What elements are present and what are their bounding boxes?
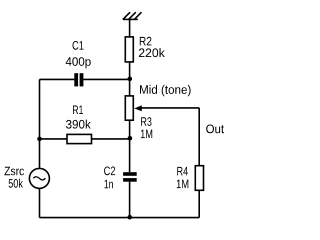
wire left rail to Zsrc top (39, 139, 41, 169)
label 220k (139, 48, 165, 57)
label 1n (105, 180, 113, 189)
resistor R2 (125, 37, 133, 62)
wiper arrowhead of R3 (134, 105, 142, 111)
label 1M of R3 (141, 130, 152, 139)
label Out (206, 125, 224, 134)
wire Zsrc bottom to bottom rail (39, 188, 41, 217)
label C1 (73, 41, 84, 50)
label Mid (tone) (140, 85, 191, 96)
chassis ground GND1 (top) (123, 12, 142, 19)
wire wiper row (arrow to right corner) (140, 107, 199, 109)
label 1M of R4 (177, 180, 189, 189)
wire right rail down to R4 top (198, 108, 200, 166)
wire C1 left plate to top-left corner (40, 78, 75, 80)
wire R2 bottom to node A (129, 62, 131, 80)
sine symbol inside Zsrc (33, 177, 45, 180)
label 50k (9, 179, 23, 188)
junction node D (C2 / bottom rail) (127, 215, 132, 220)
potentiometer R3 body (125, 96, 133, 120)
label Zsrc (5, 167, 25, 176)
wire R1 row right segment (92, 138, 130, 140)
label 400p (66, 57, 91, 68)
wire chassis to R2 top (129, 19, 131, 37)
capacitor C1 plates (74, 73, 78, 86)
label 390k (66, 120, 91, 129)
label R1 (73, 106, 83, 115)
label R3 (141, 117, 151, 126)
wire bottom rail (40, 217, 200, 219)
junction node A (top rail / R2 / R3) (128, 77, 133, 82)
junction node B (left rail / R1) (37, 137, 42, 142)
resistor R1 (67, 134, 92, 143)
wire left rail upper (corner down to R1 row) (39, 79, 41, 138)
capacitor C2 plates (123, 172, 137, 176)
label C2 (104, 167, 115, 176)
wire R3 bottom to C2 top (129, 120, 131, 172)
AC source Zsrc circle (29, 168, 49, 188)
wire top rail left segment (node A to C1 right plate) (83, 78, 129, 80)
label R4 (177, 167, 188, 176)
wire R4 bottom to bottom rail (198, 190, 200, 217)
wire C2 bottom to bottom rail (129, 182, 131, 218)
label R2 (140, 37, 152, 46)
wire R1 row left segment (40, 138, 68, 140)
junction node C (R1 / R3 bottom / C2) (128, 136, 133, 141)
wire node A to R3 top (129, 79, 131, 96)
resistor R4 (195, 166, 203, 191)
